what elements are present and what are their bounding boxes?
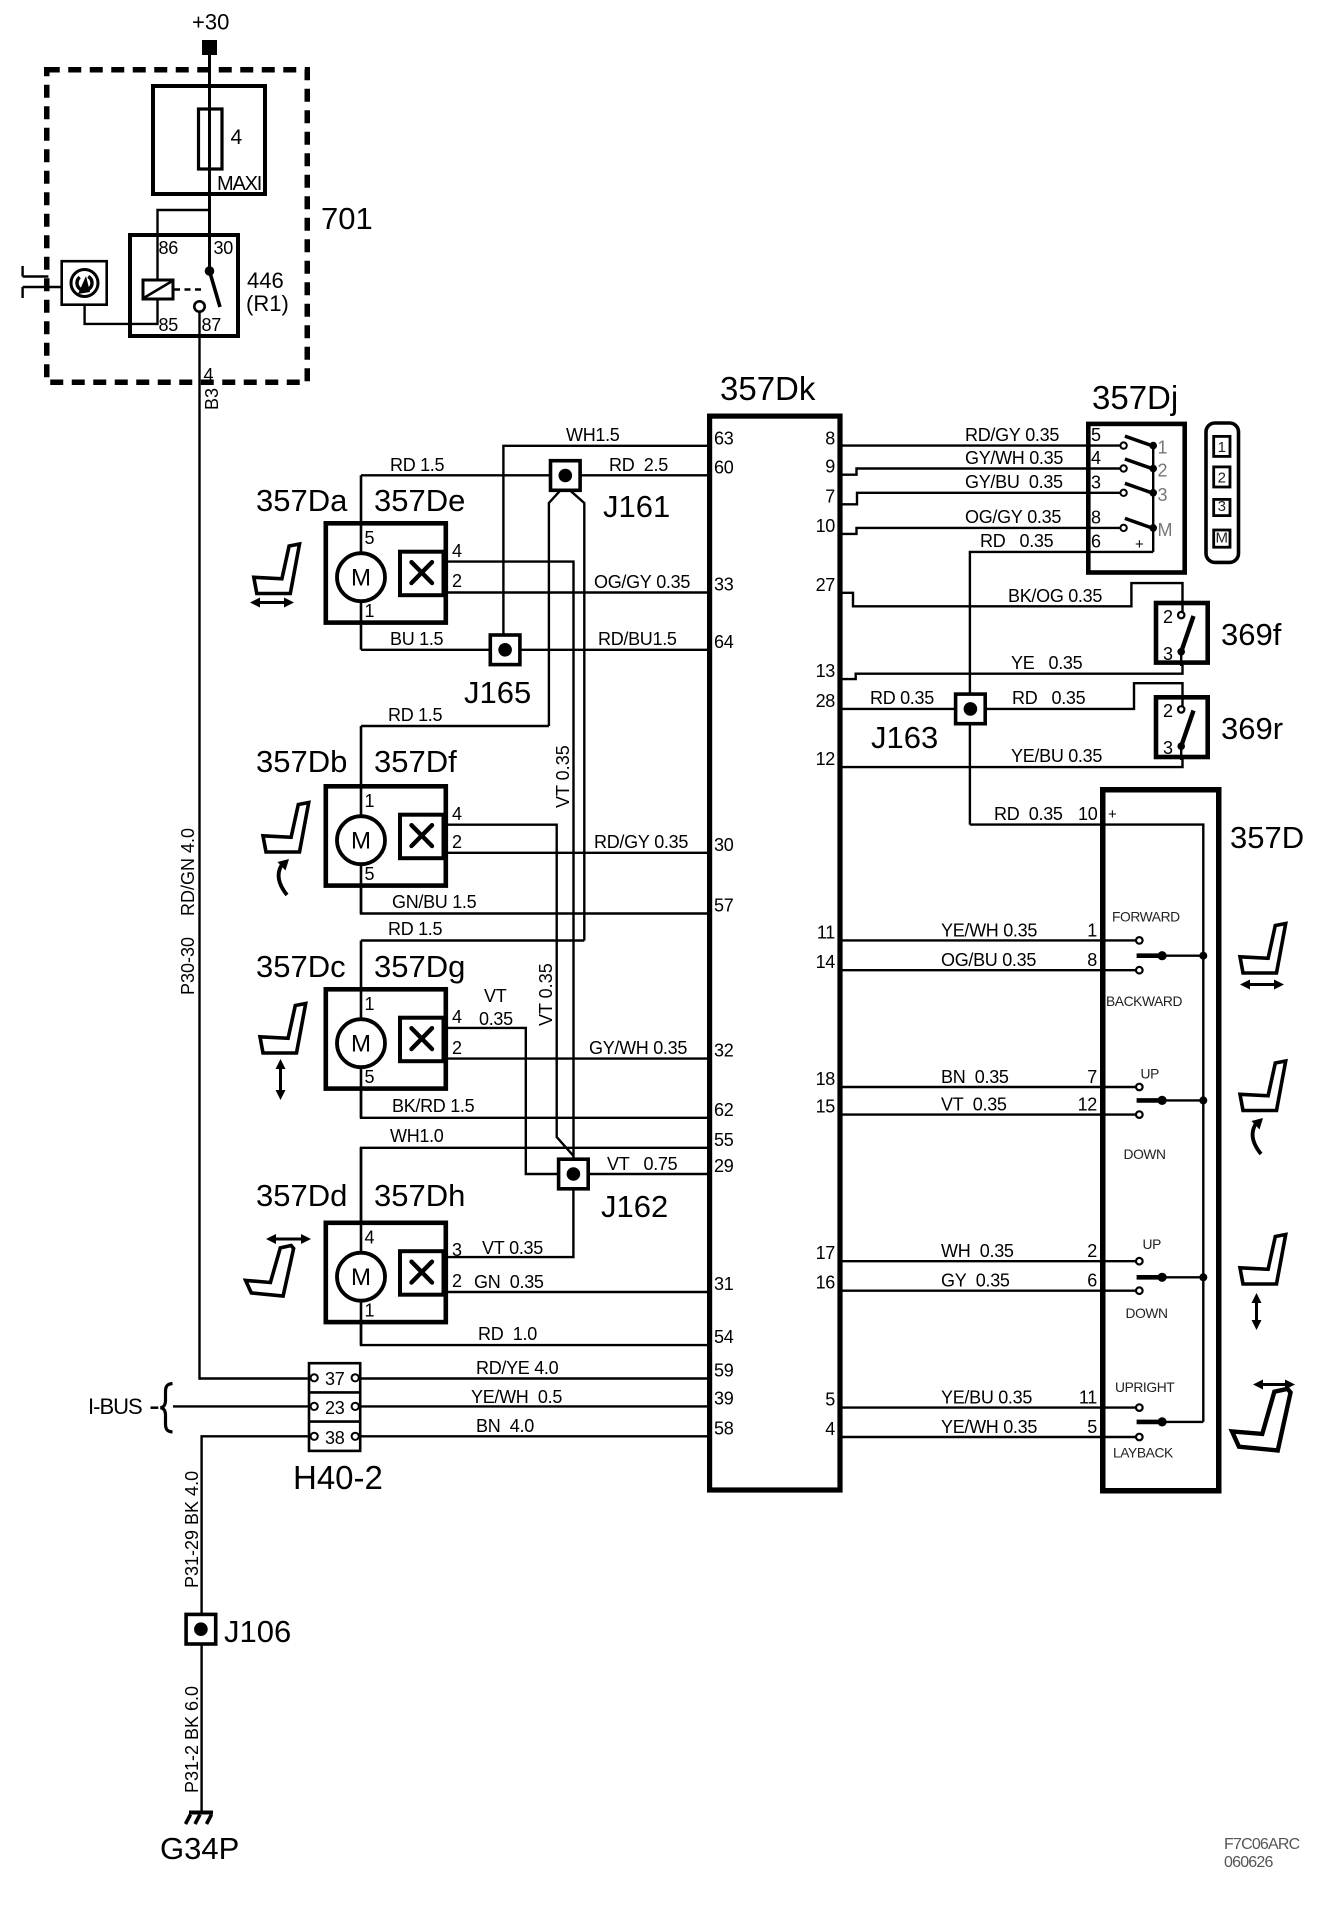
svg-text:YE/WH 0.35: YE/WH 0.35 — [941, 1417, 1037, 1437]
svg-text:2: 2 — [452, 1038, 462, 1058]
svg-text:37: 37 — [325, 1369, 345, 1389]
svg-text:RD 2.5: RD 2.5 — [609, 455, 668, 475]
svg-text:M: M — [1158, 520, 1173, 540]
svg-text:RD/GY 0.35: RD/GY 0.35 — [965, 425, 1059, 445]
wire RD 0.35 into 357D pin10 plus bus — [970, 825, 1203, 1422]
357D switch contact 2 circle — [1136, 1258, 1143, 1265]
svg-text:0.35: 0.35 — [479, 1009, 513, 1029]
357Dj wire stub row 4 — [1088, 467, 1123, 469]
svg-text:87: 87 — [202, 315, 222, 335]
svg-text:1: 1 — [1087, 920, 1097, 940]
label P31-2 BK 6.0 (rotated) — [182, 1686, 202, 1793]
svg-text:357Db: 357Db — [256, 744, 347, 779]
svg-text:RD 0.35: RD 0.35 — [994, 804, 1063, 824]
J161 split left leg to 357Df — [549, 491, 560, 726]
svg-text:J163: J163 — [871, 720, 938, 755]
motor 357De pin 5 stub — [360, 475, 363, 577]
seat icon 357Dc — [260, 1004, 306, 1054]
svg-text:2: 2 — [452, 832, 462, 852]
svg-text:30: 30 — [714, 835, 734, 855]
357Dj switch blade 5-1 — [1125, 436, 1153, 446]
label VT 0.35 (rotated, De pin4) — [553, 745, 573, 808]
svg-text:UP: UP — [1143, 1237, 1162, 1252]
svg-text:M: M — [351, 828, 371, 855]
svg-text:29: 29 — [714, 1156, 734, 1176]
357D switch contact 11 circle — [1136, 1404, 1143, 1411]
svg-text:39: 39 — [714, 1388, 734, 1408]
junction J165 — [490, 635, 520, 665]
svg-text:RD 1.5: RD 1.5 — [388, 919, 443, 939]
svg-text:RD/BU1.5: RD/BU1.5 — [598, 629, 677, 649]
svg-text:4: 4 — [452, 1007, 462, 1027]
svg-text:14: 14 — [816, 952, 836, 972]
357D bus junction dot — [1199, 1273, 1207, 1281]
svg-text:32: 32 — [714, 1041, 734, 1061]
svg-text:2: 2 — [1218, 470, 1226, 487]
junction J106 — [186, 1614, 216, 1644]
svg-text:4: 4 — [231, 126, 243, 149]
svg-text:RD 0.35: RD 0.35 — [980, 531, 1054, 551]
svg-text:62: 62 — [714, 1100, 734, 1120]
wire GN pin31 — [446, 1291, 708, 1293]
357Dj contact dot 1 — [1149, 442, 1157, 450]
357Dj switch blade 3-3 — [1125, 483, 1153, 493]
motor 357Dg M circle — [337, 1019, 385, 1067]
wire pin10 to 357Dj contact 8 — [842, 528, 1124, 534]
connector 357Dk box — [710, 416, 840, 1490]
wire coil 86 branch from fuse output — [158, 210, 210, 280]
label RD/GN 4.0 (rotated) — [178, 828, 198, 916]
svg-text:P31-29 BK 4.0: P31-29 BK 4.0 — [182, 1471, 202, 1588]
terminal +30 square — [203, 41, 217, 55]
svg-text:8: 8 — [1087, 950, 1097, 970]
svg-text:WH1.5: WH1.5 — [566, 425, 620, 445]
svg-text:3: 3 — [1163, 738, 1173, 758]
svg-text:5: 5 — [825, 1389, 835, 1409]
svg-text:+30: +30 — [192, 10, 229, 35]
svg-text:3: 3 — [1158, 485, 1168, 505]
svg-text:B3: B3 — [202, 388, 222, 410]
seat arrow recline 357Db — [279, 863, 287, 895]
357D switch contact 1 circle — [1136, 937, 1143, 944]
seat icon 357D group4 (layback) — [1232, 1389, 1291, 1451]
svg-text:M: M — [351, 565, 371, 592]
ignition switch box — [62, 261, 107, 305]
svg-text:55: 55 — [714, 1130, 734, 1150]
svg-text:GY/WH 0.35: GY/WH 0.35 — [965, 448, 1063, 468]
wire BU1.5 / RD/BU1.5 pin64 — [361, 649, 707, 651]
svg-text:5: 5 — [365, 1067, 375, 1087]
svg-text:6: 6 — [1087, 1271, 1097, 1291]
357Dj wire stub row 5 — [1088, 444, 1123, 446]
legend square 2 — [1214, 467, 1230, 487]
seat arrow vertical 357Dc — [279, 1065, 282, 1094]
seat arrow horizontal 357Da — [256, 601, 288, 604]
svg-text:DOWN: DOWN — [1126, 1306, 1168, 1321]
wire OG/GY pin33 — [446, 591, 708, 593]
wire 369r contact 3 YE/BU to pin12 — [842, 757, 1183, 767]
svg-text:59: 59 — [714, 1361, 734, 1381]
wire pin9 to 357Dj contact 4 — [842, 469, 1124, 475]
svg-text:5: 5 — [1091, 425, 1101, 445]
wire RD1.5 to 357Df pin1 — [361, 725, 549, 727]
svg-text:5: 5 — [1087, 1417, 1097, 1437]
wire BN4.0 corner to H40-2 pin38 — [202, 1436, 309, 1811]
wire I-BUS to H40-2 pin23 — [173, 1405, 309, 1407]
svg-text:VT: VT — [484, 986, 507, 1006]
svg-text:LAYBACK: LAYBACK — [1113, 1446, 1174, 1461]
svg-text:M: M — [351, 1031, 371, 1058]
seat icon 357Dd — [246, 1246, 294, 1297]
svg-text:10: 10 — [1078, 804, 1098, 824]
svg-text:8: 8 — [1091, 507, 1101, 527]
motor 357Df pin 1 stub — [360, 726, 363, 840]
357Dj contact circle 8 — [1120, 525, 1126, 531]
svg-text:357Dg: 357Dg — [374, 949, 465, 984]
legend square M — [1214, 530, 1230, 547]
ignition switch symbol — [71, 270, 98, 297]
svg-text:P31-2 BK 6.0: P31-2 BK 6.0 — [182, 1686, 202, 1793]
svg-text:1: 1 — [365, 791, 375, 811]
svg-text:2: 2 — [1163, 701, 1173, 721]
357D switch arm 2/6 — [1137, 1275, 1163, 1280]
svg-text:YE/BU 0.35: YE/BU 0.35 — [1011, 746, 1102, 766]
svg-text:357Da: 357Da — [256, 483, 348, 518]
motor 357Dg X actuator box — [400, 1018, 444, 1061]
svg-text:OG/BU 0.35: OG/BU 0.35 — [941, 950, 1036, 970]
svg-text:63: 63 — [714, 428, 734, 448]
svg-text:85: 85 — [159, 315, 179, 335]
motor 357De X actuator box — [400, 552, 444, 596]
svg-text:369f: 369f — [1221, 617, 1282, 652]
369r contact 2 circle — [1178, 706, 1184, 712]
svg-text:86: 86 — [159, 238, 179, 258]
junction J162 — [559, 1159, 589, 1189]
svg-text:YE/WH 0.35: YE/WH 0.35 — [941, 920, 1037, 940]
relay contact 30 pivot dot — [205, 266, 215, 276]
motor 357De pin 1 stub — [360, 577, 363, 650]
svg-text:12: 12 — [1078, 1095, 1098, 1115]
svg-text:9: 9 — [825, 457, 835, 477]
motor 357Df M circle — [337, 816, 385, 864]
wire RD1.5 to 357Dg pin1 — [361, 939, 584, 941]
369f contact 2 circle — [1178, 612, 1184, 618]
svg-text:RD/GN 4.0: RD/GN 4.0 — [178, 828, 198, 916]
svg-text:RD/YE 4.0: RD/YE 4.0 — [476, 1358, 559, 1378]
switch 369f box — [1156, 603, 1208, 663]
svg-text:357Dd: 357Dd — [256, 1178, 347, 1213]
wire RD/GY pin30 — [446, 852, 708, 854]
svg-text:BN 0.35: BN 0.35 — [941, 1067, 1009, 1087]
motor 357Dh X actuator box — [400, 1251, 444, 1295]
wire RD1.5/RD2.5 pin60 row — [361, 474, 707, 476]
svg-text:OG/GY 0.35: OG/GY 0.35 — [594, 572, 690, 592]
357D bus junction dot — [1199, 952, 1207, 960]
svg-text:M: M — [1216, 530, 1229, 547]
svg-text:1: 1 — [365, 601, 375, 621]
svg-text:GY/WH 0.35: GY/WH 0.35 — [589, 1038, 687, 1058]
motor unit 357Df box — [326, 786, 446, 885]
wire H40-2 pin37 to 357Dk pin59 — [360, 1377, 707, 1379]
svg-text:F7C06ARC: F7C06ARC — [1224, 1836, 1300, 1853]
svg-text:3: 3 — [1218, 498, 1226, 515]
motor 357Dh pin 1 stub — [360, 1277, 363, 1346]
wire GY/WH pin32 — [446, 1057, 708, 1059]
svg-text:23: 23 — [325, 1398, 345, 1418]
svg-text:5: 5 — [365, 864, 375, 884]
svg-text:57: 57 — [714, 896, 734, 916]
svg-text:2: 2 — [452, 1271, 462, 1291]
svg-text:RD/GY 0.35: RD/GY 0.35 — [594, 832, 688, 852]
svg-text:2: 2 — [1163, 607, 1173, 627]
svg-text:GY/BU 0.35: GY/BU 0.35 — [965, 472, 1063, 492]
wire BK/RD1.5 pin62 — [361, 1088, 707, 1118]
svg-text:VT 0.35: VT 0.35 — [553, 745, 573, 808]
svg-text:GY 0.35: GY 0.35 — [941, 1271, 1010, 1291]
357D bus junction dot — [1199, 1096, 1207, 1104]
svg-text:7: 7 — [825, 486, 835, 506]
svg-text:33: 33 — [714, 575, 734, 595]
wire 357Dg pin4 VT to J162 — [446, 1028, 559, 1174]
svg-text:FORWARD: FORWARD — [1112, 910, 1180, 925]
relay contact blade — [210, 271, 221, 307]
svg-text:WH 0.35: WH 0.35 — [941, 1241, 1014, 1261]
357Dj wire stub row 8 — [1088, 527, 1123, 529]
357D switch contact 12 circle — [1136, 1111, 1143, 1118]
svg-text:4: 4 — [452, 804, 462, 824]
wire coil 85 to ignition switch — [85, 299, 158, 324]
357D switch contact 7 circle — [1136, 1084, 1143, 1091]
svg-text:1: 1 — [1158, 438, 1168, 458]
svg-text:I-BUS: I-BUS — [88, 1394, 142, 1419]
svg-text:M: M — [351, 1264, 371, 1291]
wire 357Dk to 357D contact 11 — [842, 1406, 1139, 1408]
357D switch arm 11/5 — [1137, 1420, 1163, 1425]
svg-text:1: 1 — [1218, 439, 1226, 456]
svg-text:11: 11 — [1079, 1388, 1097, 1408]
seat arrow horizontal 357Dd — [272, 1238, 305, 1241]
svg-text:VT 0.35: VT 0.35 — [941, 1095, 1007, 1115]
svg-text:H40-2: H40-2 — [293, 1459, 383, 1496]
svg-text:31: 31 — [714, 1274, 734, 1294]
wire RD1.0 pin54 — [361, 1323, 707, 1345]
wire GN/BU1.5 pin57 — [361, 885, 707, 914]
svg-text:RD 0.35: RD 0.35 — [870, 688, 934, 708]
svg-text:RD 0.35: RD 0.35 — [1012, 688, 1086, 708]
svg-text:369r: 369r — [1221, 711, 1283, 746]
fuse holder box MAXI — [153, 86, 265, 194]
label B3 (rotated) — [202, 388, 222, 410]
svg-text:3: 3 — [1163, 644, 1173, 664]
357Dj switch blade 4-2 — [1125, 459, 1153, 469]
svg-text:MAXI: MAXI — [217, 173, 261, 195]
relay coil — [143, 280, 173, 299]
connector H40-2 box — [309, 1363, 360, 1451]
svg-text:YE 0.35: YE 0.35 — [1011, 653, 1083, 673]
svg-text:J161: J161 — [603, 489, 670, 524]
connector stub bottom to ignition switch — [23, 286, 62, 288]
wire 357Dk to 357D contact 1 — [842, 939, 1139, 941]
svg-text:4: 4 — [1091, 448, 1101, 468]
wire 357Dk to 357D contact 8 — [842, 969, 1139, 971]
357Dj legend rounded box — [1206, 423, 1239, 562]
fuse 4 element — [199, 109, 223, 169]
369f contact 3 dot — [1177, 648, 1185, 656]
label P31-29 BK 4.0 (rotated) — [182, 1471, 202, 1588]
svg-text:357Dh: 357Dh — [374, 1178, 465, 1213]
motor 357Df pin 5 stub — [360, 840, 363, 914]
H40-2 pin circles — [311, 1374, 318, 1381]
357Dj contact circle 4 — [1120, 465, 1126, 471]
svg-text:4: 4 — [365, 1228, 375, 1248]
369r contact 3 dot — [1177, 742, 1185, 750]
svg-text:60: 60 — [714, 457, 734, 477]
svg-text:12: 12 — [816, 749, 836, 769]
357Dj contact dot 3 — [1149, 489, 1157, 497]
motor 357Dh M circle — [337, 1253, 385, 1301]
svg-text:2: 2 — [452, 571, 462, 591]
svg-text:VT 0.35: VT 0.35 — [536, 963, 556, 1026]
svg-text:1: 1 — [365, 994, 375, 1014]
seat icon 357D group3 — [1240, 1235, 1286, 1285]
wire +30 down to relay contact 30 — [208, 54, 211, 272]
svg-text:13: 13 — [816, 661, 836, 681]
dashed box 701 — [47, 70, 308, 383]
svg-text:30: 30 — [214, 238, 234, 258]
svg-text:RD 1.5: RD 1.5 — [388, 705, 443, 725]
svg-text:17: 17 — [816, 1243, 836, 1263]
svg-text:357Dj: 357Dj — [1092, 379, 1178, 416]
wire main feed into H40-2 pin37 — [200, 1377, 310, 1379]
svg-text:15: 15 — [816, 1097, 836, 1117]
svg-text:RD 1.0: RD 1.0 — [478, 1324, 537, 1344]
label VT 0.35 (rotated, Df pin4) — [536, 963, 556, 1026]
wire 357Dk to 357D contact 6 — [842, 1289, 1139, 1291]
svg-text:P30-30: P30-30 — [178, 937, 198, 995]
svg-text:4: 4 — [204, 365, 214, 385]
svg-text:+: + — [1108, 806, 1117, 823]
svg-text:2: 2 — [1087, 1241, 1097, 1261]
ground symbol G34P — [189, 1811, 213, 1815]
svg-text:3: 3 — [452, 1240, 462, 1260]
svg-text:357Df: 357Df — [374, 744, 457, 779]
motor unit 357Dg box — [326, 989, 446, 1088]
369f contact 3 stub — [1180, 652, 1182, 666]
relay coil-contact dashed link — [174, 288, 204, 290]
seat arrow horizontal group4 — [1259, 1383, 1289, 1386]
wire J162 to 357Dh pin3 — [446, 1188, 574, 1257]
svg-text:BK/OG 0.35: BK/OG 0.35 — [1008, 586, 1102, 606]
motor 357Dg pin 5 stub — [360, 1043, 363, 1118]
wire 357Df pin4 VT down — [446, 825, 574, 1156]
connector stub top (feed from other page) — [23, 275, 49, 277]
seat icon 357Db — [263, 803, 309, 853]
357Dj contact dot 2 — [1149, 465, 1157, 473]
svg-text:UPRIGHT: UPRIGHT — [1115, 1380, 1175, 1395]
svg-text:18: 18 — [816, 1069, 836, 1089]
seat icon 357D group1 — [1240, 924, 1286, 974]
svg-text:28: 28 — [816, 691, 836, 711]
svg-text:7: 7 — [1087, 1067, 1097, 1087]
svg-text:VT 0.35: VT 0.35 — [482, 1238, 543, 1258]
svg-text:GN 0.35: GN 0.35 — [474, 1272, 544, 1292]
wire H40-2 pin38 to 357Dk pin58 — [360, 1435, 707, 1437]
svg-text:357D: 357D — [1230, 820, 1304, 855]
svg-text:5: 5 — [365, 528, 375, 548]
svg-text:3: 3 — [1091, 472, 1101, 492]
switch pack 357Dj box — [1088, 424, 1184, 573]
wire 357Dk to 357D contact 7 — [842, 1086, 1139, 1088]
357D switch contact 8 circle — [1136, 967, 1143, 974]
357Dj switch blade 8-M — [1125, 518, 1153, 528]
wire VT0.75 pin29 — [588, 1173, 707, 1175]
wire WH1.5 pin63 — [503, 446, 707, 650]
wire 357Dk to 357D contact 2 — [842, 1260, 1139, 1262]
svg-text:2: 2 — [1158, 461, 1168, 481]
svg-text:BACKWARD: BACKWARD — [1106, 994, 1182, 1009]
369f contact 2 stub — [1181, 601, 1183, 615]
motor unit 357Dh box — [326, 1223, 446, 1322]
junction J161 — [551, 461, 581, 491]
wire pin7 to 357Dj contact 3 — [842, 493, 1124, 505]
wire pin28 RD through J163 to 369r contact 2 — [842, 683, 1183, 709]
svg-text:11: 11 — [817, 922, 835, 942]
svg-text:J165: J165 — [464, 675, 531, 710]
switch 369r box — [1156, 697, 1208, 757]
357Dj contact dot M — [1149, 524, 1157, 532]
motor 357Df X actuator box — [400, 815, 444, 859]
svg-text:(R1): (R1) — [246, 291, 289, 316]
svg-text:GN/BU 1.5: GN/BU 1.5 — [392, 892, 477, 912]
J161 split right leg to 357Dg — [571, 491, 585, 941]
junction J163 — [956, 694, 986, 724]
357Dj contact circle 5 — [1120, 442, 1126, 448]
seat icon 357D group2 — [1240, 1061, 1286, 1111]
wire pin27 BK/OG to 369f contact 2 — [842, 583, 1183, 606]
svg-text:16: 16 — [816, 1273, 836, 1293]
svg-text:OG/GY 0.35: OG/GY 0.35 — [965, 507, 1061, 527]
svg-text:+: + — [1135, 536, 1144, 553]
svg-text:UP: UP — [1141, 1067, 1160, 1082]
motor 357De M circle — [337, 553, 385, 601]
relay 446 R1 box — [130, 235, 238, 336]
motor 357Dh pin 4 stub — [360, 1148, 363, 1277]
wire 357Dj pin6 RD 0.35 down to J163 and 357D +10 — [970, 552, 1153, 825]
svg-text:BU 1.5: BU 1.5 — [390, 629, 444, 649]
svg-text:VT 0.75: VT 0.75 — [607, 1154, 678, 1174]
svg-text:WH1.0: WH1.0 — [390, 1126, 444, 1146]
svg-text:G34P: G34P — [160, 1831, 239, 1866]
seat arrow recline group2 — [1253, 1122, 1261, 1154]
wire 357Dk to 357D contact 12 — [842, 1113, 1139, 1115]
357Dj common bus vertical — [1152, 446, 1154, 552]
svg-text:YE/WH 0.5: YE/WH 0.5 — [471, 1387, 562, 1407]
seat switch unit 357D box — [1103, 790, 1219, 1491]
svg-text:1: 1 — [365, 1301, 375, 1321]
motor 357Dg pin 1 stub — [360, 941, 363, 1044]
I-BUS brace — [161, 1384, 173, 1433]
wire 357De pin4 VT down — [446, 562, 574, 1162]
357D switch arm 7/12 — [1137, 1098, 1163, 1103]
label P30-30 (rotated) — [178, 937, 198, 995]
seat arrow vertical group3 — [1255, 1299, 1258, 1324]
369r contact 3 stub — [1180, 746, 1182, 760]
svg-text:701: 701 — [321, 201, 373, 236]
357Dj wire stub row 3 — [1088, 492, 1123, 494]
seat icon 357Da — [254, 544, 300, 594]
svg-text:RD 1.5: RD 1.5 — [390, 455, 445, 475]
relay contact 87 terminal circle — [194, 301, 204, 311]
